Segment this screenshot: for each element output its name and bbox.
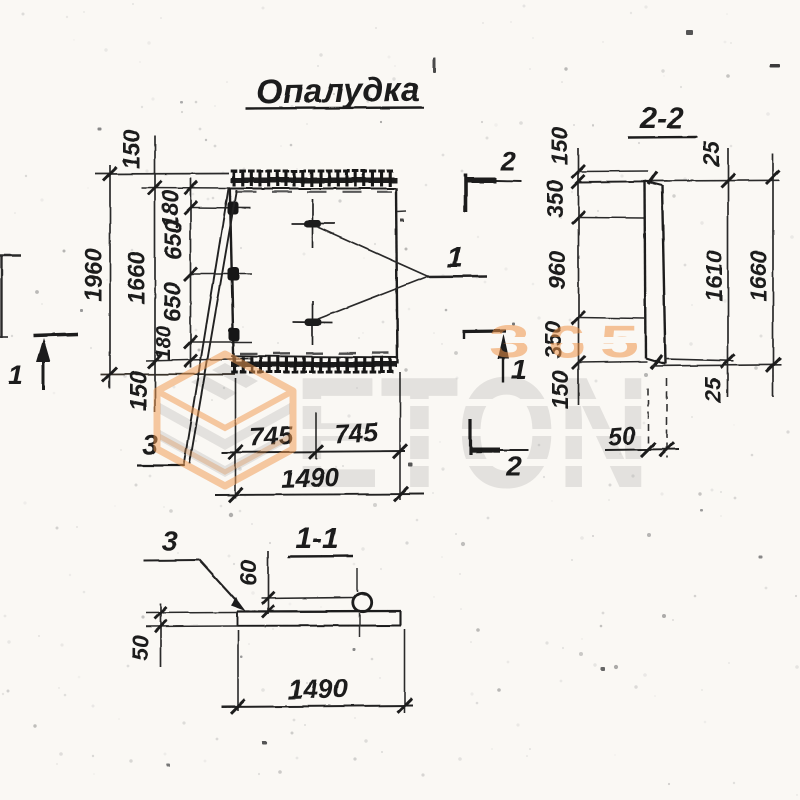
chain tick y342: [184, 336, 197, 349]
bottom edge board hatch bar: [231, 362, 397, 368]
sec22 panel right edge: [662, 186, 666, 365]
tick 745 left: [229, 445, 243, 459]
sec22 ext top outer: [579, 170, 649, 173]
chain tick y187.7: [184, 181, 197, 194]
sec22 panel top line: [579, 180, 653, 183]
leader upper cross to 1: [318, 227, 427, 276]
dim line 1490: [215, 494, 424, 495]
sec22 dim line 50: [605, 449, 679, 450]
center cross upper horizontal: [291, 223, 335, 225]
chain dim line vertical: [190, 178, 192, 368]
ext vert mid: [315, 412, 317, 460]
ext vert right: [399, 372, 401, 500]
sec22 ext stub 350 top: [579, 217, 645, 220]
svg-text:1490: 1490: [287, 673, 348, 705]
sec11 ext 60: [261, 598, 354, 599]
sec22 chain tick y362.5: [572, 356, 585, 369]
sec11 plate bottom: [237, 625, 401, 627]
tick 1610 bottom: [721, 354, 735, 368]
svg-text:3: 3: [162, 525, 178, 556]
tick 1490 left: [229, 488, 243, 502]
sec22 panel bottom tick: [651, 355, 662, 369]
ext line bottom inner: [146, 359, 252, 362]
center cross lower blob: [305, 319, 322, 327]
svg-text:960: 960: [544, 251, 570, 290]
svg-text:50: 50: [127, 635, 153, 661]
svg-text:2: 2: [499, 145, 516, 176]
section marker 2 top bar: [464, 174, 468, 212]
sec22 panel top tick: [648, 172, 657, 185]
sec11 ext vert right: [404, 629, 406, 713]
tick sec11 1490 left: [231, 700, 245, 714]
chain tick y207.5: [184, 201, 197, 214]
section marker 1 mid stub: [463, 331, 465, 339]
tick 1660 top: [766, 170, 780, 184]
bottom dashed liner: [240, 352, 390, 355]
svg-text:60: 60: [235, 560, 261, 586]
ext line bottom outer: [101, 373, 235, 376]
tick 50 left: [642, 443, 656, 457]
section 1-1 title underline: [288, 555, 353, 558]
tick 1660 top: [148, 181, 162, 195]
svg-text:180: 180: [153, 325, 176, 360]
svg-text:1660: 1660: [123, 251, 150, 305]
tick 1610 top: [721, 174, 735, 188]
svg-text:1: 1: [7, 359, 23, 390]
sec22 chain tick y171.5: [572, 165, 585, 178]
sec22 ext dashed right: [666, 378, 668, 458]
sec22 chain tick y181.5: [572, 175, 585, 188]
sec22 ext bottom inner: [579, 362, 648, 363]
sec11 leader 3 shelf: [143, 559, 199, 562]
leader lower cross to 1: [318, 277, 427, 320]
section marker 2 bottom arm thick: [470, 448, 500, 453]
svg-text:1-1: 1-1: [295, 522, 338, 555]
sec22 panel bottom cap: [646, 358, 666, 364]
tick 60 bottom: [262, 606, 274, 618]
tick 1960 top: [103, 167, 117, 181]
leader 3 diagonal b: [190, 190, 237, 464]
section marker 1 left arrow: [37, 338, 51, 362]
sec11 leader 3 diagonal: [199, 560, 240, 605]
tick sec11 50 bottom: [155, 620, 167, 632]
title underline: [246, 108, 424, 109]
svg-text:650: 650: [159, 281, 186, 322]
sec22 ext bottom right 1660: [652, 365, 781, 366]
section marker 2 bottom bar: [469, 419, 472, 455]
tick 1960 bottom: [103, 368, 117, 382]
svg-text:150: 150: [118, 128, 145, 169]
watermark logo orange ring: [157, 354, 293, 486]
svg-text:2-2: 2-2: [639, 102, 684, 135]
section 2-2 title underline: [628, 136, 697, 139]
svg-text:Опалудка: Опалудка: [256, 71, 420, 112]
center cross upper blob: [304, 220, 322, 228]
sec11 ext vert left: [237, 630, 239, 711]
sec11 plate left end: [236, 612, 238, 626]
edge artifact line: [0, 254, 21, 257]
scan specks: [433, 57, 436, 73]
dim line 745: [221, 451, 405, 453]
center cross lower horizontal: [292, 321, 333, 324]
top dashed liner: [237, 191, 392, 193]
section marker 2 top arm thick: [466, 178, 496, 184]
ext line top inner: [141, 187, 230, 190]
watermark logo gray bands: [160, 403, 290, 450]
center cross lower vertical: [312, 301, 314, 345]
svg-text:150: 150: [546, 127, 572, 166]
panel outline bottom edge: [231, 356, 397, 358]
section marker 2 bottom arm thin: [500, 449, 528, 451]
sec22 dim line 1660: [772, 153, 774, 397]
leader shelf 1: [427, 275, 487, 278]
svg-text:150: 150: [125, 370, 152, 411]
chain tick y361: [184, 355, 197, 368]
watermark logo orange chevron: [157, 391, 293, 428]
svg-text:650: 650: [160, 219, 187, 260]
sec22 ext stub 350 bottom: [579, 318, 645, 319]
sec11 lifting loop: [353, 593, 371, 611]
svg-text:350: 350: [542, 180, 568, 219]
sec22 dim line 1610: [727, 148, 729, 397]
sec22 ext top right 1660: [652, 179, 780, 182]
clamp mark middle: [228, 268, 240, 282]
tick 745 mid: [309, 445, 323, 459]
section marker 1 mid bar: [463, 329, 506, 333]
leader 3 diagonal a: [184, 189, 229, 467]
sec11 dim line 50: [160, 603, 162, 667]
section marker 2 top arm thin: [496, 180, 522, 183]
top hatch teeth: [231, 170, 393, 187]
section marker 1 mid shaft: [502, 355, 504, 383]
section marker 1 left bar: [33, 334, 78, 336]
tick sec11 50 top: [155, 607, 167, 619]
bottom hatch teeth: [231, 357, 393, 374]
svg-text:25: 25: [698, 140, 724, 168]
top edge board hatch bar: [231, 178, 397, 184]
chain tick y274: [184, 268, 197, 281]
section marker 1 left shaft: [42, 355, 45, 390]
sec11 plate right end: [399, 611, 401, 626]
tick 1490 right: [394, 487, 408, 501]
panel outline left edge: [230, 188, 234, 364]
label 3 underline: [137, 464, 184, 466]
clamp mark lower: [229, 328, 241, 342]
sec11 leader 3 arrowhead: [231, 598, 246, 612]
tick 745 right: [393, 444, 407, 458]
ext vert left: [235, 378, 237, 498]
dim line 1660 vertical: [154, 136, 156, 412]
sec11 dim line 1490: [222, 706, 413, 708]
sec11 loop centerline lower: [359, 613, 361, 637]
sec22 ext mid right 1610: [665, 359, 734, 361]
chain stub low: [191, 341, 253, 343]
tick 50 right: [660, 442, 674, 456]
sec22 panel top cap: [645, 181, 663, 186]
panel outline right edge: [396, 188, 398, 364]
center cross upper vertical: [312, 199, 314, 248]
watermark logo orange lower band: [157, 435, 293, 472]
sec22 ext dashed left: [648, 388, 650, 451]
tick 60 top: [262, 592, 274, 604]
dim line 1960 vertical: [109, 165, 111, 388]
sec11 ext 50 top: [146, 612, 237, 615]
tick 1660 bottom: [148, 355, 162, 369]
tick 1660 bottom: [766, 358, 780, 372]
svg-text:25: 25: [700, 376, 726, 404]
right edge stub: [397, 211, 406, 214]
tick sec11 1490 right: [398, 699, 412, 713]
ext line top outer: [95, 173, 229, 176]
svg-text:1610: 1610: [701, 250, 727, 301]
svg-text:1960: 1960: [80, 248, 107, 302]
chain stub 180: [191, 207, 251, 210]
svg-text:1: 1: [447, 241, 464, 274]
sec11 ext 50 bottom: [146, 625, 237, 628]
chain stub mid: [191, 273, 253, 275]
sec11 dim line 60: [267, 551, 269, 614]
panel outline top edge: [230, 188, 396, 190]
sec22 panel left edge: [645, 181, 646, 358]
sec22 chain tick y317.5: [572, 311, 585, 324]
sec11 loop centerline upper: [357, 568, 359, 592]
sec22 chain tick y217.5: [572, 211, 585, 224]
svg-text:1660: 1660: [745, 250, 771, 301]
clamp mark upper: [228, 202, 239, 216]
sec11 plate top: [237, 610, 401, 613]
section marker 1 mid arrow: [498, 334, 509, 359]
sec22 chain dim line: [578, 148, 580, 405]
